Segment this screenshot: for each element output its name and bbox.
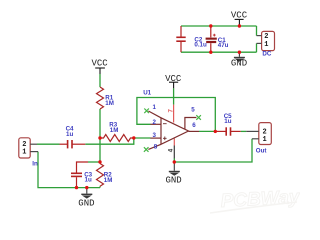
svg-text:VCC: VCC [231,11,248,21]
svg-text:4: 4 [168,148,175,152]
svg-text:1M: 1M [104,177,113,184]
svg-text:1: 1 [22,148,26,156]
svg-text:2: 2 [264,33,268,41]
svg-text:DC: DC [262,51,271,58]
svg-text:7: 7 [168,109,175,113]
svg-text:VCC: VCC [165,74,182,84]
svg-text:1M: 1M [105,100,114,107]
svg-text:1: 1 [263,136,267,144]
svg-text:U1: U1 [143,89,151,96]
svg-text:6: 6 [192,122,196,129]
svg-text:0.1u: 0.1u [194,41,207,48]
svg-text:GND: GND [231,58,247,68]
svg-text:3: 3 [153,132,157,139]
svg-text:8: 8 [154,144,158,151]
svg-text:Out: Out [256,148,267,155]
svg-text:GND: GND [166,175,182,185]
svg-text:1M: 1M [110,127,119,134]
svg-text:In: In [32,160,38,167]
svg-text:1u: 1u [224,118,231,125]
svg-text:GND: GND [78,199,94,209]
svg-text:1u: 1u [66,131,73,138]
svg-text:PCBWay: PCBWay [220,187,300,212]
svg-text:1: 1 [153,104,157,111]
svg-text:1u: 1u [85,177,92,184]
svg-text:2: 2 [153,119,157,126]
svg-text:5: 5 [191,107,195,114]
svg-text:VCC: VCC [92,58,109,68]
svg-text:47u: 47u [218,42,229,49]
svg-text:1: 1 [264,41,268,49]
